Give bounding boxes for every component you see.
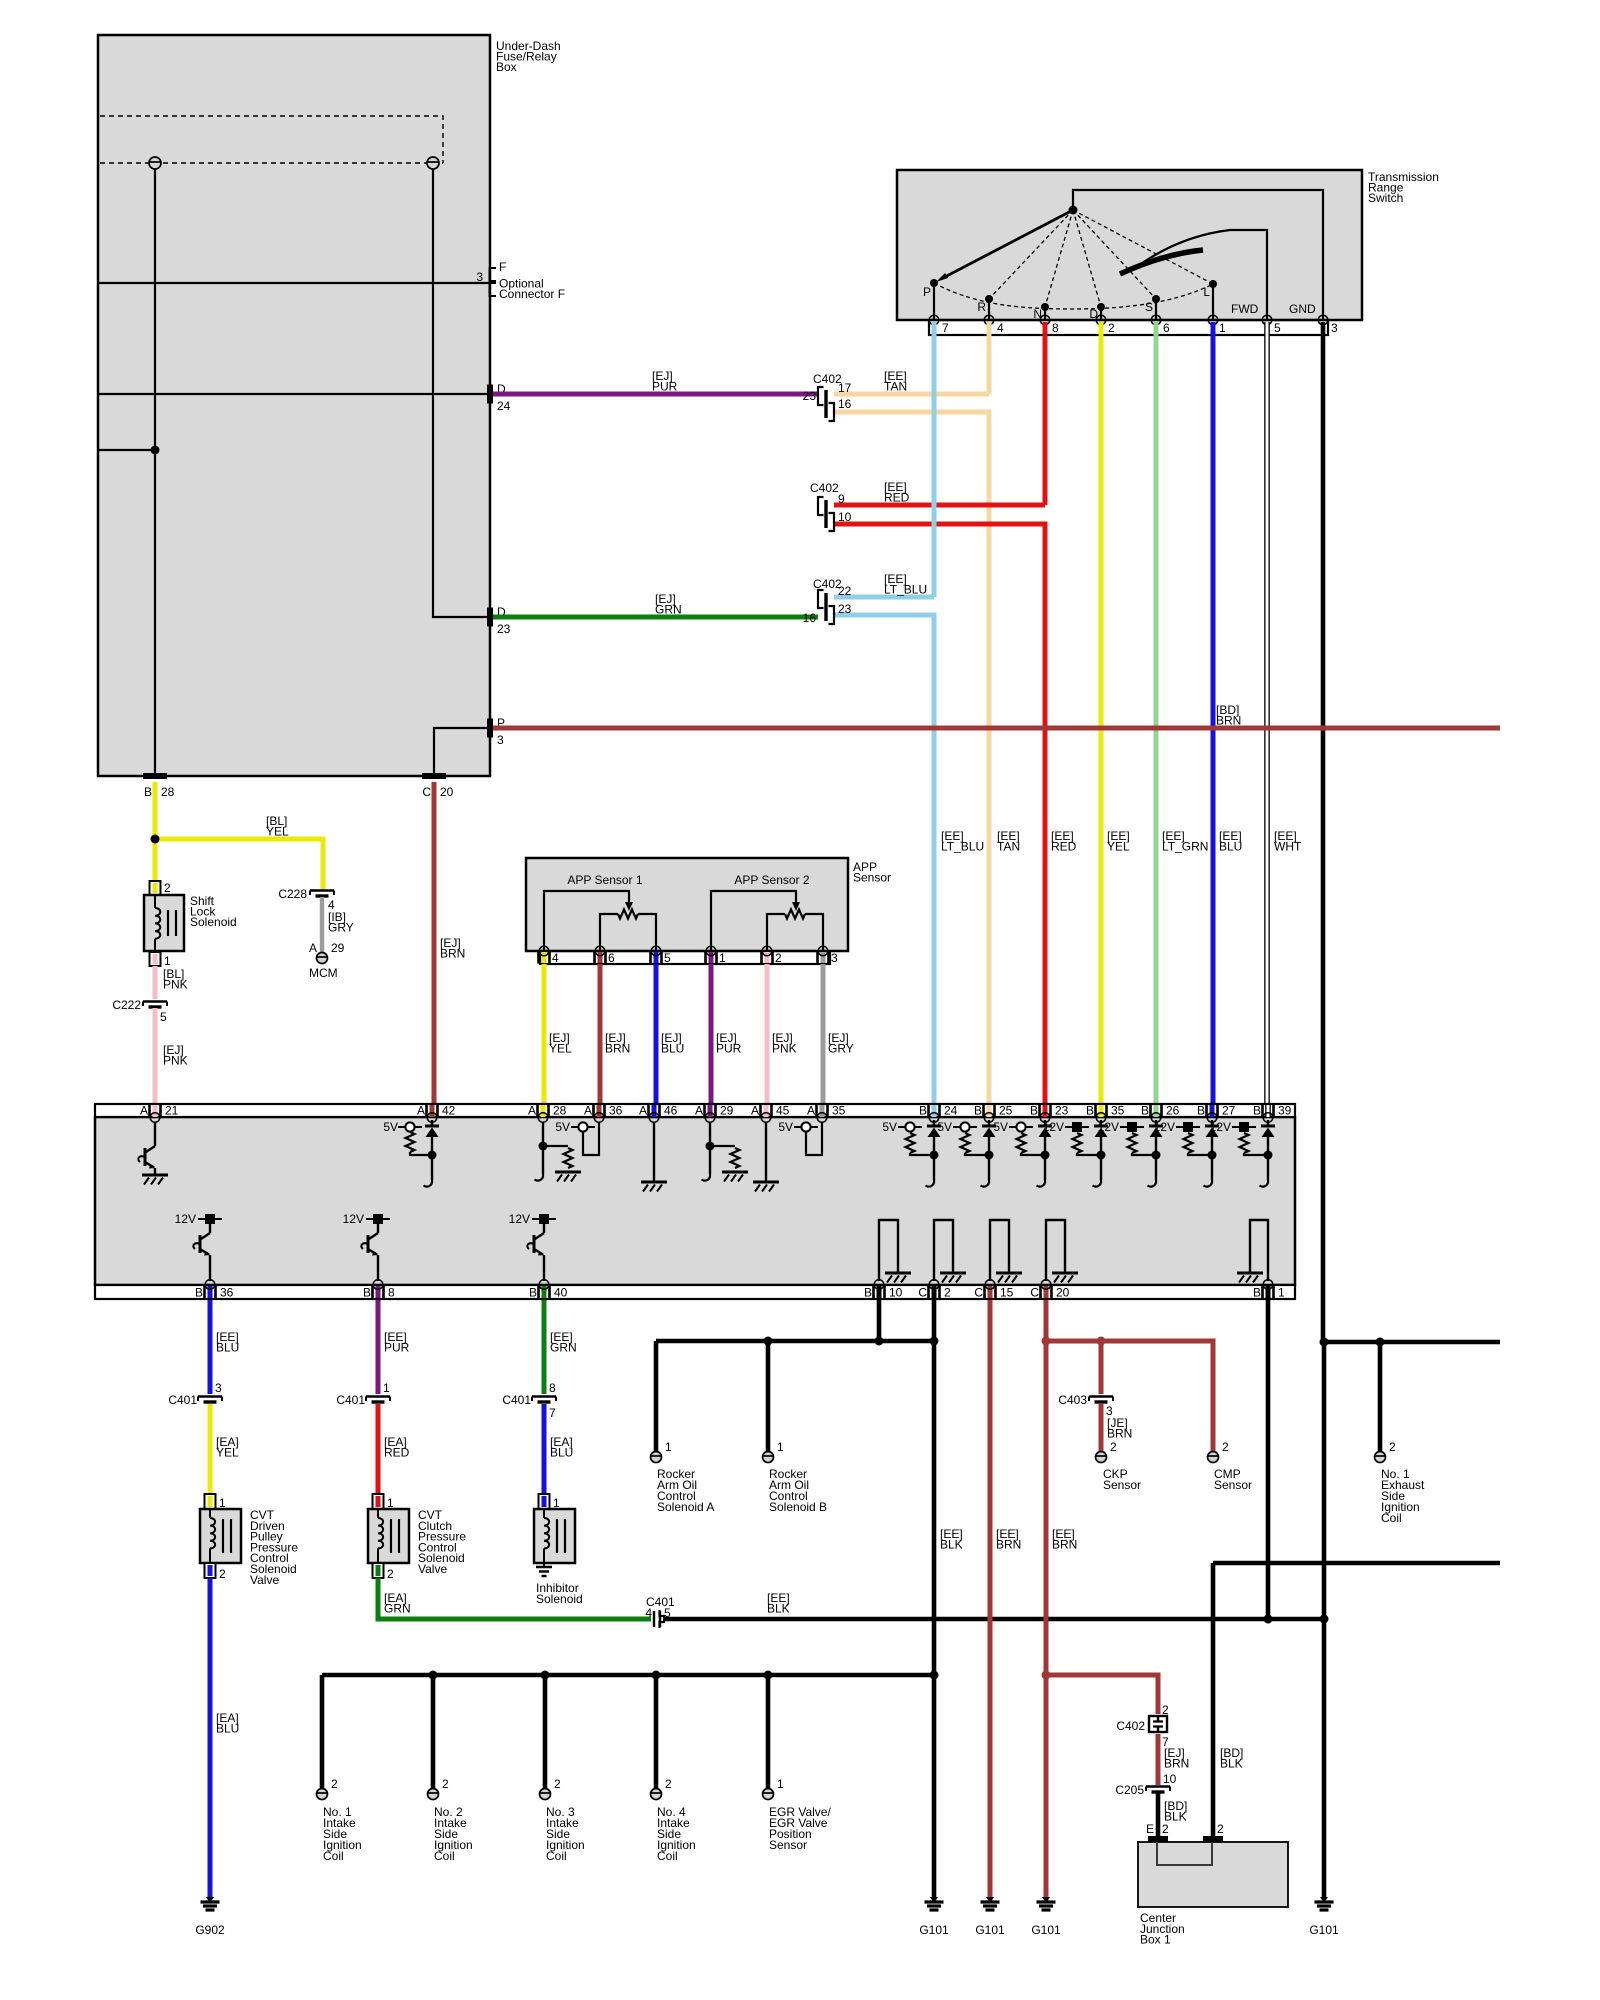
ECM pin A28 [541, 1105, 546, 1117]
svg-text:23: 23 [497, 622, 511, 636]
wire to P3 and C20 [434, 728, 487, 776]
svg-text:[EE]PUR: [EE]PUR [384, 1330, 410, 1355]
ground loop cell pin x=1046 [1046, 1220, 1065, 1281]
svg-text:1: 1 [1278, 1286, 1285, 1300]
svg-text:28: 28 [553, 1104, 567, 1118]
svg-text:B: B [144, 785, 152, 799]
fuse terminal right [427, 157, 439, 169]
svg-text:A: A [695, 1104, 703, 1118]
resistor [961, 1133, 970, 1153]
wire to D24 [98, 393, 490, 395]
APP pin 6 [598, 952, 603, 963]
svg-text:R: R [977, 300, 986, 314]
wire ignition coil bus [322, 1673, 934, 1678]
svg-text:F: F [499, 260, 506, 274]
wire dashed positions [989, 210, 1213, 307]
svg-text:C: C [422, 785, 431, 799]
diode [1100, 1120, 1102, 1126]
wire [EE] TAN pin4 [987, 322, 992, 394]
svg-text:A: A [140, 1104, 148, 1118]
svg-text:2: 2 [1222, 1440, 1229, 1454]
svg-text:5V: 5V [882, 1120, 897, 1134]
svg-text:G902: G902 [195, 1923, 225, 1937]
wire [EE] RED C402 pin9 [834, 503, 1045, 508]
ECM pin B25 [987, 1105, 992, 1117]
svg-text:1: 1 [1219, 321, 1226, 335]
ECM pin A46 [652, 1105, 657, 1117]
svg-text:[EE]BLK: [EE]BLK [940, 1527, 963, 1552]
ECM pin B39 [1265, 1105, 1271, 1117]
connector C401 x=210 [198, 1397, 222, 1403]
ground G101 (C20) [1037, 1897, 1056, 1910]
contact L [1212, 284, 1214, 320]
wire to No. 4 intake coil [654, 1675, 659, 1789]
svg-text:G101: G101 [919, 1923, 949, 1937]
svg-text:2: 2 [219, 1567, 226, 1581]
svg-text:2: 2 [442, 1777, 449, 1791]
transistor A21 driver [154, 1122, 156, 1146]
ECM pin B27 [1210, 1105, 1215, 1117]
wiper contact arc [1120, 250, 1203, 274]
svg-text:8: 8 [1052, 321, 1059, 335]
ECM pin A36 [597, 1105, 602, 1117]
wire to Rocker Arm Oil Control Solenoid B [766, 1341, 771, 1452]
wire CKP branch [1099, 1341, 1104, 1394]
connector C205 [1146, 1787, 1170, 1793]
wire BRN branch to C402 [1046, 1675, 1158, 1714]
svg-text:10: 10 [1163, 1772, 1177, 1786]
svg-text:G101: G101 [975, 1923, 1005, 1937]
svg-text:25: 25 [999, 1104, 1013, 1118]
wire [EJ] BRN APP [598, 964, 603, 1104]
svg-text:16: 16 [838, 397, 852, 411]
svg-text:35: 35 [1111, 1104, 1125, 1118]
ECM pin C20 bottom [1044, 1286, 1049, 1298]
svg-text:3: 3 [476, 270, 483, 284]
svg-text:A: A [807, 1104, 815, 1118]
Shift Lock Solenoid terminal 1 [150, 952, 161, 966]
svg-text:[EE]YEL: [EE]YEL [1107, 829, 1130, 854]
TRS pin 3 [1318, 315, 1328, 325]
wire GND vertical to G101 [1322, 1342, 1327, 1898]
wire B10 to rocker bus [877, 1300, 882, 1341]
svg-text:23: 23 [1055, 1104, 1069, 1118]
terminal CMP pin 2 [1208, 1452, 1219, 1463]
svg-text:1: 1 [777, 1440, 784, 1454]
svg-text:2: 2 [554, 1777, 561, 1791]
svg-text:24: 24 [944, 1104, 958, 1118]
wire [EA] BLU to G902 [208, 1578, 213, 1898]
svg-text:3: 3 [215, 1381, 222, 1395]
svg-text:[BD]BLK: [BD]BLK [1164, 1799, 1187, 1824]
svg-text:9: 9 [838, 492, 845, 506]
wire [EJ] PNK to ECM A21 [153, 1008, 158, 1104]
wire rocker bus [656, 1339, 934, 1344]
svg-text:29: 29 [720, 1104, 734, 1118]
wire [EE] LT_GRN pin6 [1154, 322, 1159, 1104]
svg-text:1: 1 [164, 954, 171, 968]
connector C222 [143, 1002, 167, 1008]
svg-text:[EJ]YEL: [EJ]YEL [549, 1031, 572, 1056]
wire [BL] YEL from B28 [153, 782, 158, 888]
ECM pin C2 bottom [932, 1286, 937, 1298]
wire to Rocker Arm Oil Control Solenoid A [654, 1341, 659, 1452]
terminal Rocker B pin 1 [763, 1452, 774, 1463]
wire [EJ] GRY APP [821, 964, 826, 1104]
svg-text:B: B [529, 1286, 537, 1300]
pin E2 [1148, 1836, 1168, 1842]
TRS connector strip [929, 320, 1328, 335]
svg-text:16: 16 [803, 611, 817, 625]
ECM pin A29 [708, 1105, 713, 1117]
svg-text:22: 22 [838, 584, 852, 598]
svg-text:2: 2 [665, 1777, 672, 1791]
svg-text:C402: C402 [810, 481, 839, 495]
svg-text:2: 2 [1162, 1703, 1169, 1717]
svg-text:B: B [919, 1104, 927, 1118]
svg-text:B: B [1030, 1104, 1038, 1118]
TRS pin 5 [1262, 315, 1272, 325]
wire [EJ] BLU APP [654, 964, 659, 1104]
svg-text:[EA]GRN: [EA]GRN [384, 1591, 411, 1616]
solenoid CVT Driven Pulley Pressure Control Solenoid Valve [205, 1494, 216, 1509]
wire [EA] GRN clutch pin2 [378, 1578, 651, 1619]
TRS pin 8 [1040, 315, 1050, 325]
svg-text:3: 3 [497, 733, 504, 747]
svg-text:[EA]YEL: [EA]YEL [216, 1435, 239, 1460]
wire [BD] BLK to E2 [1156, 1793, 1161, 1836]
potentiometer wiper APP Sensor 2 [711, 891, 796, 951]
diode [1044, 1120, 1046, 1126]
solenoid Inhibitor Solenoid [539, 1494, 550, 1509]
wire to EGR valve [766, 1675, 771, 1789]
connector C401 x=378 [366, 1397, 390, 1403]
wire [EE] LT_BLU pin7 [932, 322, 937, 597]
wire [EA] YEL [208, 1404, 213, 1494]
svg-text:5V: 5V [555, 1120, 570, 1134]
svg-text:2: 2 [331, 1777, 338, 1791]
wire left vertical to B28 [154, 169, 156, 776]
svg-text:2: 2 [1389, 1440, 1396, 1454]
terminal No. 1 intake coil pin 2 [317, 1789, 328, 1800]
resistor A42 [406, 1132, 415, 1152]
svg-text:4: 4 [997, 321, 1004, 335]
svg-text:B: B [195, 1286, 203, 1300]
svg-text:[EE]GRN: [EE]GRN [550, 1330, 577, 1355]
TRS pin 7 [929, 315, 939, 325]
wire CKP/CMP feed [1046, 1341, 1213, 1452]
TRS pin 1 [1208, 315, 1218, 325]
svg-text:1: 1 [719, 951, 726, 965]
diode [1211, 1120, 1213, 1126]
svg-text:[EA]RED: [EA]RED [384, 1435, 410, 1460]
svg-text:3: 3 [831, 951, 838, 965]
svg-text:7: 7 [942, 321, 949, 335]
wire [EE] RED pin8 [1043, 322, 1048, 505]
wire [EJ] GRN D23 to C402 [493, 615, 818, 620]
svg-text:[EE]BLU: [EE]BLU [1219, 829, 1242, 854]
svg-text:C222: C222 [112, 998, 141, 1012]
potentiometer wiper APP Sensor 1 [544, 891, 629, 951]
svg-text:42: 42 [442, 1104, 456, 1118]
svg-text:5: 5 [1274, 321, 1281, 335]
svg-text:39: 39 [1278, 1104, 1292, 1118]
svg-text:C: C [974, 1286, 983, 1300]
wire [EE] LT_BLU C402 pin22 [834, 595, 934, 600]
diode [988, 1120, 990, 1126]
ECM pin B10 bottom [877, 1286, 882, 1298]
svg-text:C402: C402 [1116, 1719, 1145, 1733]
wire [EE] BLK to ground bus [663, 1617, 1324, 1622]
connector C402 (RED) [818, 497, 834, 531]
svg-text:8: 8 [549, 1381, 556, 1395]
ground G101 (C15) [981, 1897, 1000, 1910]
svg-text:A: A [528, 1104, 536, 1118]
svg-text:[EE]BLU: [EE]BLU [216, 1330, 239, 1355]
svg-text:10: 10 [889, 1286, 903, 1300]
svg-text:27: 27 [1222, 1104, 1236, 1118]
wire [EE] LT_BLU C402 pin23 [834, 615, 934, 1104]
svg-text:[BD]BLK: [BD]BLK [1220, 1746, 1243, 1771]
svg-text:A: A [417, 1104, 425, 1118]
svg-text:10: 10 [838, 510, 852, 524]
resistor [1017, 1133, 1026, 1153]
svg-text:B: B [1197, 1104, 1205, 1118]
svg-text:24: 24 [497, 399, 511, 413]
ECM pin B1 bottom [1266, 1286, 1271, 1298]
svg-text:InhibitorSolenoid: InhibitorSolenoid [536, 1581, 583, 1606]
ground loop cell pin x=879 [879, 1220, 898, 1281]
svg-text:2: 2 [1162, 1822, 1169, 1836]
svg-text:1: 1 [383, 1381, 390, 1395]
ECM pin A35 [820, 1105, 825, 1117]
svg-text:2: 2 [164, 881, 171, 895]
solenoid CVT Clutch Pressure Control Solenoid Valve [373, 1494, 384, 1509]
connector C402 (GRN/LT_BLU) [818, 590, 834, 624]
APP pin 3 [821, 952, 826, 963]
wire [EJ] YEL APP [542, 964, 547, 1104]
svg-text:2: 2 [1108, 321, 1115, 335]
svg-text:26: 26 [1166, 1104, 1180, 1118]
Shift Lock Solenoid [144, 895, 184, 951]
svg-text:GND: GND [1289, 302, 1316, 316]
wire [EJ] PNK APP [765, 964, 770, 1104]
terminal No. 2 intake coil pin 2 [428, 1789, 439, 1800]
wire B1 to black bus [1266, 1300, 1271, 1619]
svg-text:2: 2 [1217, 1822, 1224, 1836]
wire [EE] BLK C2 to G101 [932, 1300, 937, 1898]
contact S [1155, 299, 1157, 320]
optional connector F pin 3 [490, 268, 497, 296]
wire [EE] TAN C402 pin17 [834, 392, 989, 397]
svg-text:12V: 12V [1210, 1120, 1231, 1134]
wire exhaust coil feed [1324, 1340, 1500, 1345]
resistor [1128, 1133, 1137, 1153]
svg-text:B: B [864, 1286, 872, 1300]
svg-text:40: 40 [554, 1286, 568, 1300]
svg-text:4: 4 [552, 951, 559, 965]
svg-text:6: 6 [1163, 321, 1170, 335]
svg-text:5V: 5V [993, 1120, 1008, 1134]
diode [1155, 1120, 1157, 1126]
connector C228 [310, 891, 334, 897]
wire [EE] WHT pin5 [1264, 322, 1270, 1104]
wire to No. 2 intake coil [431, 1675, 436, 1789]
svg-text:B: B [1086, 1104, 1094, 1118]
ground [722, 1172, 748, 1182]
ECM pin B23 [1043, 1105, 1048, 1117]
svg-text:[BL]YEL: [BL]YEL [266, 814, 289, 839]
ECM connector strip bottom [95, 1285, 1295, 1299]
node pivot [1069, 206, 1078, 215]
svg-text:17: 17 [838, 381, 852, 395]
terminal No. 3 intake coil pin 2 [540, 1789, 551, 1800]
svg-text:[BL]PNK: [BL]PNK [163, 967, 188, 992]
APP pin 2 [765, 952, 770, 963]
connector C402 (PUR/TAN) [818, 387, 834, 421]
connector C402 bottom [1149, 1716, 1167, 1732]
svg-text:46: 46 [664, 1104, 678, 1118]
svg-text:20: 20 [1056, 1286, 1070, 1300]
wire [EE] PUR from ECM x=378 [376, 1300, 381, 1394]
terminal Rocker A pin 1 [651, 1452, 662, 1463]
svg-text:[BD]BRN: [BD]BRN [1216, 703, 1241, 728]
svg-text:C205: C205 [1115, 1783, 1144, 1797]
svg-text:A: A [309, 941, 317, 955]
svg-text:35: 35 [832, 1104, 846, 1118]
pin P3 [487, 719, 493, 738]
wire [EE] BLU from ECM x=210 [208, 1300, 213, 1394]
wire to optional connector F [98, 282, 490, 284]
svg-text:[EJ]BLU: [EJ]BLU [661, 1031, 684, 1056]
wire [EE] YEL pin2 [1099, 322, 1104, 1104]
svg-text:1: 1 [665, 1440, 672, 1454]
ECM connector strip top [95, 1104, 1295, 1117]
svg-text:12V: 12V [175, 1212, 196, 1226]
svg-text:B: B [1141, 1104, 1149, 1118]
wire stub left [98, 449, 155, 451]
diode A42 [431, 1120, 433, 1126]
svg-text:B: B [974, 1104, 982, 1118]
wire [BD] BRN P3 overlay [493, 726, 1500, 731]
svg-text:[EE]BRN: [EE]BRN [1052, 1527, 1077, 1552]
svg-text:12V: 12V [343, 1212, 364, 1226]
wire [EA] RED [376, 1404, 381, 1494]
ECM pin A45 [764, 1105, 769, 1117]
pin D24 [487, 385, 493, 404]
svg-text:15: 15 [1000, 1286, 1014, 1300]
ground Inhibitor [543, 1563, 545, 1567]
resistor [1073, 1133, 1082, 1153]
contact R [988, 299, 990, 320]
ground [555, 1172, 581, 1182]
Center Junction Box 1 [1138, 1842, 1288, 1907]
svg-text:[EE]TAN: [EE]TAN [884, 369, 907, 394]
svg-text:C: C [1030, 1286, 1039, 1300]
APP pin 5 [654, 952, 659, 963]
svg-text:APP Sensor 2: APP Sensor 2 [734, 873, 809, 887]
svg-text:45: 45 [776, 1104, 790, 1118]
wire [EJ] PUR D24 to C402 [493, 392, 818, 397]
Under-Dash Fuse/Relay Box [98, 35, 490, 776]
svg-text:1: 1 [777, 1777, 784, 1791]
svg-text:23: 23 [803, 389, 817, 403]
svg-text:[EA]BLU: [EA]BLU [550, 1435, 573, 1460]
ECM pin B40 bottom [542, 1286, 547, 1298]
wire [EE] BRN C15 to G101 [988, 1300, 993, 1898]
resistor [1184, 1133, 1193, 1153]
APP connector strip [540, 951, 830, 964]
input cell A29 [709, 1122, 711, 1174]
svg-text:C401: C401 [502, 1393, 531, 1407]
wire pivot to GND pin [1073, 190, 1323, 320]
contact P [933, 283, 935, 320]
connector C401 x=544 [532, 1397, 556, 1403]
svg-text:8: 8 [388, 1286, 395, 1300]
svg-text:3: 3 [1331, 321, 1338, 335]
pin D23 [487, 608, 493, 627]
svg-text:C401: C401 [336, 1393, 365, 1407]
ground cell A45 [765, 1122, 767, 1181]
wire GND pin3 black [1321, 322, 1326, 1342]
svg-text:36: 36 [220, 1286, 234, 1300]
svg-text:S: S [1145, 300, 1153, 314]
svg-text:L: L [1203, 285, 1210, 299]
wire [EJ] BRN C20 to ECM A42 [432, 782, 437, 1104]
terminal CKP pin 2 [1096, 1452, 1107, 1463]
svg-text:MCM: MCM [309, 966, 338, 980]
wire [EE] RED C402 pin10 [834, 524, 1045, 1104]
svg-text:5V: 5V [937, 1120, 952, 1134]
wire [JE] BRN [1099, 1404, 1104, 1452]
svg-text:APP Sensor 1: APP Sensor 1 [567, 873, 642, 887]
input cell A28 [542, 1122, 544, 1174]
svg-text:FWD: FWD [1231, 302, 1259, 316]
diode [933, 1120, 935, 1126]
svg-text:21: 21 [165, 1104, 179, 1118]
wire [EE] TAN C402 pin16 [834, 412, 989, 1104]
svg-text:[EE]BRN: [EE]BRN [996, 1527, 1021, 1552]
ECM pin B26 [1154, 1105, 1159, 1117]
svg-text:12V: 12V [1098, 1120, 1119, 1134]
svg-text:12V: 12V [1154, 1120, 1175, 1134]
ECM pin B8 bottom [376, 1286, 381, 1298]
wire internal dashed bus [100, 116, 443, 163]
terminal EGR pin 1 [763, 1789, 774, 1800]
svg-text:B: B [363, 1286, 371, 1300]
svg-text:[EE]BLK: [EE]BLK [767, 1591, 790, 1616]
APP Sensor [526, 858, 848, 951]
resistor [564, 1148, 573, 1168]
svg-text:G101: G101 [1309, 1923, 1339, 1937]
svg-text:[EE]TAN: [EE]TAN [997, 829, 1020, 854]
svg-text:2: 2 [387, 1567, 394, 1581]
TRS pin 4 [984, 315, 994, 325]
resistor [906, 1133, 915, 1153]
resistor [731, 1148, 740, 1168]
APP pin 1 [709, 952, 714, 963]
wire [EE] BLU pin1 [1211, 322, 1216, 1104]
contact D [1100, 307, 1102, 320]
wire [EJ] BRN [1156, 1734, 1161, 1785]
svg-text:5: 5 [664, 951, 671, 965]
svg-text:[EA]BLU: [EA]BLU [216, 1711, 239, 1736]
svg-text:2: 2 [944, 1286, 951, 1300]
ground cell A46 [653, 1122, 655, 1181]
terminal exhaust coil pin 2 [1375, 1452, 1386, 1463]
svg-text:12V: 12V [1043, 1120, 1064, 1134]
svg-text:A: A [751, 1104, 759, 1118]
